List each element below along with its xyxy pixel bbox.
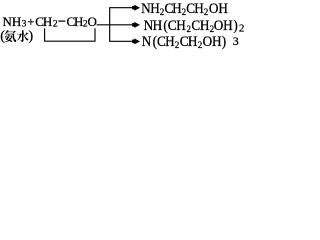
epoxide ring closure bracket — [45, 28, 95, 41]
svg-text:(: ( — [0, 29, 5, 44]
wire from O through trunk to middle arrowhead — [97, 24, 134, 26]
middle arrowhead — [132, 22, 140, 28]
hanzi shui (water) — [17, 30, 29, 42]
bond dash between CH2 and CH2 — [58, 20, 65, 22]
svg-text:3: 3 — [233, 34, 239, 48]
bottom arrowhead — [132, 38, 140, 44]
top branch wire — [109, 7, 133, 9]
svg-text:N(CHCHOH): N(CHCHOH) — [142, 33, 226, 50]
product 2 diethanolamine NH(CH2CH2OH)2 — [144, 18, 238, 35]
bottom branch wire — [109, 40, 133, 42]
svg-text:): ) — [29, 29, 34, 44]
svg-text:+: + — [27, 15, 34, 29]
branch trunk wire — [109, 8, 111, 42]
svg-text:2: 2 — [239, 23, 245, 35]
product 1 monoethanolamine NH2CH2CH2OH — [141, 0, 228, 16]
product 3 triethanolamine N(CH2CH2OH)3 — [142, 33, 226, 50]
top arrowhead — [132, 5, 140, 11]
hanzi an (ammonia) — [4, 30, 16, 42]
